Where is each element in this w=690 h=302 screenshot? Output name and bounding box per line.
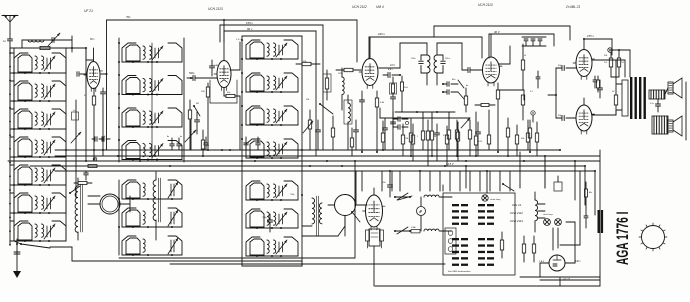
coil-trimmer cell B6	[122, 208, 182, 228]
label tube UF 21	[84, 9, 93, 13]
svg-text:1k: 1k	[524, 55, 527, 57]
svg-text:140 v: 140 v	[575, 260, 581, 263]
svg-text:1/4: 1/4	[604, 61, 607, 64]
capacitor C41 40n	[391, 97, 396, 112]
capacitor C82	[204, 137, 209, 150]
coil-trimmer cell B4	[122, 141, 182, 161]
coil-trimmer cell C1	[246, 40, 298, 60]
wire 155v bus	[583, 34, 630, 77]
switch S5	[69, 186, 80, 194]
chassis boundary	[540, 150, 600, 280]
tuning gang circle 1	[100, 194, 120, 214]
tube UF21	[84, 48, 103, 92]
capacitor C42 1n	[393, 117, 408, 122]
bank C top	[242, 35, 302, 37]
svg-text:UCH 2113: UCH 2113	[510, 219, 523, 223]
meter M	[417, 197, 426, 231]
wire gang 2 links	[302, 205, 345, 236]
resistor R54 50k	[521, 120, 530, 150]
wire IFT1 secondary	[400, 43, 462, 70]
label AGA 1776 I	[612, 212, 631, 265]
resistor R53	[515, 125, 518, 156]
resistor R25	[350, 128, 353, 156]
cap cluster mid	[383, 112, 396, 150]
label tube UCH 2112	[352, 5, 367, 9]
resistor R6b 05k	[400, 76, 408, 112]
resistor R32	[506, 118, 509, 156]
resistor R23 20k	[323, 70, 331, 100]
circle J1	[93, 157, 97, 161]
wire gang2 down	[302, 216, 345, 236]
bus wire 4	[30, 162, 585, 166]
socket contact bars	[452, 204, 494, 266]
resistor R55 01	[535, 122, 538, 156]
svg-text:90 v: 90 v	[247, 27, 253, 31]
svg-text:700p: 700p	[290, 194, 295, 196]
coil-trimmer cell C5	[246, 181, 298, 201]
svg-text:20k: 20k	[305, 99, 310, 101]
grid cap C3	[187, 72, 217, 81]
resistor R10	[528, 120, 531, 152]
antenna lead with taps	[9, 48, 14, 246]
capacitor C90 01u	[650, 99, 661, 112]
label misc1	[305, 99, 310, 101]
osc coil pair	[312, 196, 322, 236]
coil-trimmer cell C4	[246, 139, 298, 159]
resistor R43 100p	[417, 112, 425, 150]
wire lower bus 2	[170, 263, 445, 265]
resistor R60	[331, 116, 334, 150]
capacitor C50p upper	[556, 65, 576, 71]
coil-trimmer cell A7	[14, 221, 66, 242]
bank A right rail	[65, 48, 67, 241]
svg-text:0.1: 0.1	[443, 135, 446, 137]
cap C33	[381, 171, 393, 197]
coil L6 tall	[344, 95, 352, 150]
resistor R50	[475, 104, 495, 107]
label 1A3	[539, 260, 545, 263]
power col resistors	[584, 182, 592, 228]
wire speaker common	[665, 82, 686, 140]
resistor R42 70k	[405, 119, 413, 156]
label tube UCH 2113 second	[478, 3, 493, 7]
heater chain coil	[535, 192, 538, 232]
label 44v	[388, 68, 394, 71]
svg-text:160 v: 160 v	[378, 32, 385, 36]
capacitor C61	[354, 120, 359, 150]
svg-text:UM 4: UM 4	[376, 5, 384, 9]
output transformer core	[630, 77, 646, 119]
resistor R24	[308, 110, 311, 150]
wire verts power	[545, 156, 575, 250]
svg-text:80 v: 80 v	[90, 38, 95, 41]
svg-text:30p: 30p	[227, 92, 231, 94]
wire 70v bus	[106, 15, 358, 150]
resistor R8	[521, 44, 524, 90]
coil-trimmer cell A1	[14, 53, 66, 74]
resistor R46 50k	[455, 120, 458, 156]
power wires	[520, 152, 595, 215]
svg-text:0.25: 0.25	[478, 141, 483, 143]
svg-text:UCH 2113: UCH 2113	[208, 7, 223, 11]
resistor R45 01u	[443, 112, 451, 150]
coil-trimmer cell A6	[14, 193, 66, 214]
switch S2	[193, 105, 200, 116]
pot wiper circle	[531, 111, 535, 122]
fuse F1	[411, 226, 420, 233]
coil-trimmer cell B1	[122, 43, 182, 63]
tube UBL21 lower	[573, 98, 595, 134]
resistor R2 cathode UF21	[92, 88, 95, 150]
capacitor C55	[593, 76, 597, 88]
dial lamp 1	[543, 214, 554, 225]
socket panel outline	[443, 193, 515, 275]
cathode resistor R6	[375, 91, 385, 152]
resistor R41	[381, 121, 384, 150]
potentiometer P1	[608, 48, 612, 52]
cap C31	[476, 122, 481, 156]
svg-text:100: 100	[201, 91, 205, 93]
wire anode bus upper	[434, 26, 570, 40]
cathode R7	[496, 83, 499, 152]
svg-text:70v: 70v	[126, 15, 131, 19]
dial lamp 2	[555, 219, 562, 226]
speaker coil upper	[649, 90, 665, 99]
svg-text:500p: 500p	[189, 72, 195, 75]
tube UM4 magic eye	[363, 188, 386, 286]
svg-text:M: M	[419, 211, 421, 214]
bus wire 1	[55, 149, 560, 151]
wire mains lower	[375, 278, 560, 286]
resistor R51 025	[474, 112, 482, 156]
cap C28	[435, 124, 440, 161]
svg-text:4n: 4n	[466, 84, 469, 87]
wires bus-to-box comb	[362, 171, 510, 191]
tuning dial	[639, 223, 667, 251]
panel lamp	[482, 195, 501, 201]
label UCH2113 heater	[510, 219, 523, 223]
switch S1a	[394, 193, 411, 200]
svg-text:40n: 40n	[452, 78, 456, 81]
svg-text:UF 21: UF 21	[84, 9, 93, 13]
wave switch arm	[16, 239, 302, 266]
coil-trimmer cell A3	[14, 109, 66, 130]
label misc9	[524, 55, 527, 57]
svg-text:1: 1	[417, 136, 418, 138]
resistor R47 1m	[464, 88, 467, 112]
coil-trimmer cell A5	[14, 165, 66, 186]
svg-text:0.1: 0.1	[530, 91, 533, 93]
grid components	[462, 68, 482, 73]
tube UCH2113b	[480, 34, 503, 86]
coil-trimmer cell B5	[122, 180, 182, 200]
capacitor C40 50p	[383, 73, 401, 78]
heater taps	[538, 204, 545, 218]
capacitor C43 40n	[393, 112, 409, 129]
resistor R40 boxed	[390, 77, 397, 96]
coil-trimmer cell C6	[246, 209, 298, 229]
svg-text:Ln: Ln	[3, 39, 6, 43]
svg-text:155 v: 155 v	[587, 34, 594, 38]
wire UF21 anode	[77, 72, 107, 77]
wire y286 ext	[560, 280, 600, 286]
coil L1 antenna trap	[28, 40, 44, 42]
switch S7	[465, 165, 488, 193]
wire h2	[497, 90, 524, 100]
svg-text:4u: 4u	[180, 135, 183, 138]
svg-text:UCH 2112: UCH 2112	[352, 5, 367, 9]
wire 90v bus	[224, 27, 316, 156]
svg-text:150 v: 150 v	[246, 21, 253, 25]
tube UCH2112	[359, 37, 381, 89]
capacitor C9	[598, 80, 603, 98]
switch S3	[398, 196, 412, 200]
resistor R44 5k	[430, 112, 437, 156]
bank B lower left rail	[118, 180, 120, 255]
label misc4	[84, 95, 87, 97]
resistor R9	[521, 95, 524, 120]
wire vert extend	[94, 150, 103, 161]
bank C bottom rail	[242, 265, 302, 267]
wave switch cluster	[442, 80, 464, 99]
coil-trimmer cell B2	[122, 76, 182, 96]
resistor R11	[604, 52, 613, 77]
resistor R30	[456, 122, 459, 161]
bank C left rail	[241, 36, 243, 266]
wire UCH2112 anode	[379, 56, 400, 68]
resistor R31	[468, 120, 471, 156]
osc coil L7	[153, 172, 160, 240]
cap C24	[316, 120, 321, 150]
coil L5	[342, 68, 344, 110]
svg-text:6,: 6,	[104, 136, 106, 138]
label misc10	[530, 91, 533, 93]
wire to tube UF21	[71, 47, 86, 60]
bus junction dots	[93, 149, 531, 172]
switch S8	[351, 211, 360, 222]
wire mid horizontal	[380, 108, 470, 118]
label misc6	[466, 84, 469, 87]
svg-text:JP0a: JP0a	[338, 73, 343, 75]
resistor R29	[445, 126, 448, 166]
svg-text:0.5k: 0.5k	[404, 87, 409, 89]
ground symbol	[13, 250, 21, 278]
padder caps	[262, 214, 273, 232]
cathode R4	[224, 88, 240, 150]
resistor R28	[426, 120, 429, 166]
resistor R70 in bus	[88, 165, 97, 168]
svg-text:0.5k: 0.5k	[380, 102, 385, 104]
wire UCH2113a anode	[230, 42, 240, 70]
wire trap loop	[10, 36, 72, 52]
svg-text:700p: 700p	[262, 217, 268, 219]
resistor R11b	[617, 49, 623, 77]
coil-trimmer cell A2	[14, 81, 66, 102]
coil-trimmer cell B3	[122, 108, 182, 128]
capacitor C70 1u box	[72, 110, 79, 120]
svg-text:140p: 140p	[214, 64, 220, 67]
bank C right rail	[301, 36, 303, 266]
loudspeaker upper	[668, 78, 682, 98]
bus dots 2	[65, 149, 596, 172]
svg-text:skala lamp: skala lamp	[490, 199, 501, 201]
svg-text:AGA 1776 I: AGA 1776 I	[612, 212, 631, 265]
label misc3	[196, 103, 199, 105]
wire UCH2113b anode	[499, 46, 510, 64]
svg-text:1/4: 1/4	[621, 61, 624, 64]
caps C72 series	[92, 136, 110, 141]
choke L lower	[424, 229, 452, 231]
resistor R71	[74, 182, 92, 185]
wire power col	[560, 171, 580, 245]
ground switch	[14, 241, 21, 244]
resistor R dropper	[522, 236, 535, 262]
svg-text:UCH 2112: UCH 2112	[510, 211, 523, 215]
resistor R3 100k	[201, 83, 210, 150]
svg-text:50k: 50k	[521, 138, 525, 140]
switch S1b	[394, 227, 411, 234]
wire mid h1	[395, 111, 455, 113]
svg-text:1m: 1m	[206, 145, 209, 147]
tube UBL21 upper	[573, 39, 595, 80]
wire stub x191	[190, 120, 192, 150]
capacitor C81	[177, 135, 183, 150]
antenna coupling capacitor	[3, 34, 13, 48]
screen cap C5	[360, 91, 365, 152]
output transformer primary	[592, 60, 628, 116]
bus wire 5	[55, 170, 595, 172]
capacitor C80	[167, 135, 174, 150]
label misc8	[612, 91, 615, 93]
resistor R26	[401, 124, 404, 156]
bank B left rail	[118, 38, 120, 162]
antenna	[2, 15, 18, 34]
socket subbox	[445, 228, 456, 254]
tube UY21	[549, 255, 581, 281]
wire bottom left rise	[354, 161, 356, 258]
mains connector	[554, 176, 562, 191]
capacitor C22	[195, 112, 200, 134]
speaker coil lower	[652, 116, 668, 134]
resistor R barretter	[500, 232, 503, 258]
svg-text:40a: 40a	[589, 191, 592, 194]
capacitor bank top	[522, 37, 546, 46]
grid stopper R5	[336, 68, 361, 71]
wire phase splitter	[548, 68, 557, 118]
filter choke dark bars	[598, 210, 604, 233]
label misc7	[603, 55, 608, 57]
coil-trimmer cell A4	[14, 137, 66, 158]
switch S4	[319, 103, 333, 114]
capacitor C83	[244, 137, 249, 150]
wire vert x76	[75, 100, 77, 198]
loudspeaker lower	[668, 116, 682, 136]
wire UY21	[540, 240, 575, 263]
bus wire 3	[8, 160, 600, 162]
bank A left rail	[13, 53, 15, 241]
coil-trimmer cell C2	[246, 73, 298, 93]
svg-text:0.5A: 0.5A	[411, 226, 416, 229]
label 80v	[90, 38, 95, 41]
capacitor C84	[256, 137, 261, 150]
capacitor C50p lower	[556, 115, 576, 121]
bank B right rail	[183, 38, 185, 162]
label tube UM 4	[376, 5, 384, 9]
label tubes 2xUBL 21	[565, 5, 580, 9]
bank B mid rail	[151, 43, 153, 160]
svg-text:100a: 100a	[411, 58, 416, 60]
svg-text:20k: 20k	[603, 55, 608, 57]
tube UCH2113a	[210, 19, 237, 103]
coil-trimmer cell C3	[246, 106, 298, 126]
wire gang1 frame	[88, 196, 130, 212]
svg-text:skala lamp: skala lamp	[543, 214, 554, 216]
svg-text:4u: 4u	[167, 135, 170, 138]
coil-trimmer cell C7	[246, 237, 298, 257]
capacitor C21	[210, 60, 220, 76]
svg-text:50: 50	[612, 91, 615, 93]
resistor R20	[188, 100, 191, 150]
resistor R52	[487, 110, 490, 150]
wire bank A top	[10, 48, 14, 53]
wire y277	[520, 276, 600, 278]
label misc2	[338, 73, 343, 75]
tuning gang circle 2	[335, 195, 356, 216]
svg-text:30 V: 30 V	[494, 30, 501, 34]
coil-trimmer cell B7	[122, 236, 182, 256]
svg-text:70k: 70k	[405, 138, 409, 140]
wire 30v bus	[489, 30, 554, 58]
wire UM4 grid	[356, 171, 367, 205]
trimmer C51	[461, 118, 470, 128]
wire power diag	[540, 222, 575, 277]
panel text	[448, 270, 471, 273]
label 12v	[236, 39, 242, 41]
svg-text:Sek 2400 bertkontakter: Sek 2400 bertkontakter	[448, 270, 471, 273]
resistor R12	[611, 77, 619, 115]
trimmer C71	[71, 132, 81, 143]
label UBL21 heater	[512, 203, 522, 207]
trimmer C20	[185, 130, 196, 142]
resistor R21 1m	[201, 130, 209, 156]
wire gang link	[88, 203, 130, 205]
wire 160v bus	[369, 32, 482, 59]
wire box connect	[442, 185, 444, 191]
label tube UCH 2113 first	[208, 7, 223, 11]
svg-text:44 V: 44 V	[390, 64, 395, 67]
bus wire 2	[55, 155, 600, 157]
capacitor C2 UF21	[101, 88, 106, 150]
resistor R22 30k	[296, 61, 320, 66]
svg-text:2×UBL 21: 2×UBL 21	[565, 5, 580, 9]
bank B bottom rail	[119, 257, 355, 259]
label 700p2	[290, 194, 303, 196]
IF transformer T1	[411, 43, 451, 85]
svg-text:0.1u: 0.1u	[650, 103, 655, 105]
wire vert x86	[85, 47, 87, 162]
wire 150v bus	[220, 21, 323, 150]
svg-text:UBL 21: UBL 21	[512, 203, 522, 207]
capacitor C73	[84, 171, 89, 180]
svg-text:1,2 v: 1,2 v	[236, 39, 242, 41]
label misc5	[452, 78, 456, 81]
wire antenna down-lead	[9, 48, 11, 161]
wire OT top	[592, 60, 625, 77]
capacitor C52	[536, 71, 540, 88]
svg-text:100 a: 100 a	[445, 58, 451, 60]
switch S6	[502, 183, 514, 191]
resistor R56	[597, 76, 600, 92]
